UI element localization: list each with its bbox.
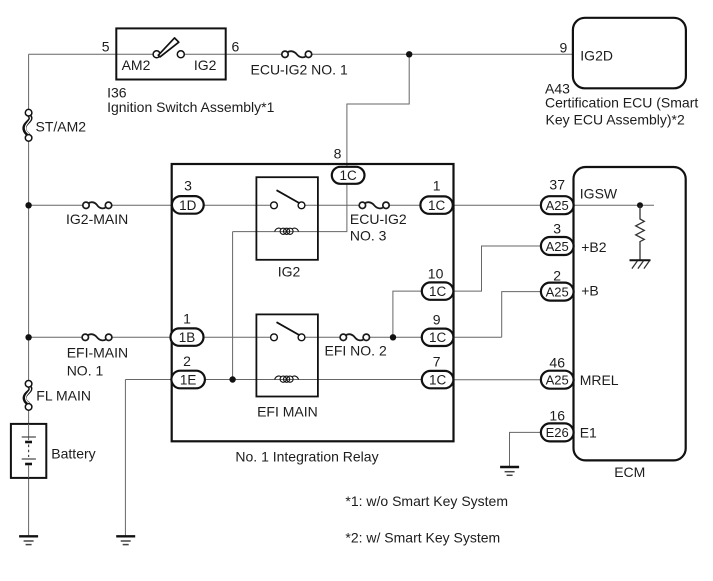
svg-text:Battery: Battery xyxy=(51,446,95,462)
svg-text:8: 8 xyxy=(334,146,342,162)
ignition switch blade xyxy=(158,38,179,57)
svg-text:E1: E1 xyxy=(580,425,597,441)
svg-text:EFI-MAIN: EFI-MAIN xyxy=(67,345,128,361)
svg-text:1C: 1C xyxy=(429,330,447,345)
ground from E1 xyxy=(500,467,519,475)
pin oval 1C pin 1 xyxy=(420,196,452,213)
fuse EFI-MAIN NO. 1 xyxy=(82,334,112,340)
node junction left rail EFI-MAIN xyxy=(25,334,31,340)
wire E1 to ground xyxy=(510,432,541,466)
svg-text:No. 1 Integration Relay: No. 1 Integration Relay xyxy=(235,449,378,465)
pin oval A25 +B2 xyxy=(541,237,574,255)
svg-text:1D: 1D xyxy=(179,198,197,213)
svg-text:Key ECU Assembly)*2: Key ECU Assembly)*2 xyxy=(546,112,685,128)
relay outer box No.1 Integration Relay xyxy=(172,164,454,441)
ECM box xyxy=(574,167,686,460)
fuse EFI NO. 2 xyxy=(340,334,369,340)
svg-text:NO. 3: NO. 3 xyxy=(350,227,387,243)
svg-text:1C: 1C xyxy=(339,168,357,183)
ignition switch contact AM2 xyxy=(153,51,160,58)
svg-text:+B: +B xyxy=(581,282,599,298)
wire junction drop from top row xyxy=(347,54,409,167)
A43 certification ECU box xyxy=(573,18,686,89)
svg-text:37: 37 xyxy=(549,177,565,193)
svg-text:*2: w/ Smart Key System: *2: w/ Smart Key System xyxy=(345,529,500,545)
wire IG2 coil down to 1E row xyxy=(232,232,234,380)
ground below battery xyxy=(19,536,38,544)
svg-text:AM2: AM2 xyxy=(122,57,151,73)
svg-text:*1: w/o Smart Key System: *1: w/o Smart Key System xyxy=(345,493,508,509)
svg-text:A25: A25 xyxy=(546,284,569,299)
svg-text:IG2-MAIN: IG2-MAIN xyxy=(66,211,128,227)
pin oval A25 MREL xyxy=(541,371,574,389)
relay IG2 contacts xyxy=(271,202,278,209)
svg-text:E26: E26 xyxy=(546,425,569,440)
ignition switch contact IG2 xyxy=(177,51,184,58)
svg-text:1C: 1C xyxy=(429,372,447,387)
svg-text:IG2: IG2 xyxy=(194,57,217,73)
svg-text:1C: 1C xyxy=(428,198,446,213)
svg-text:A25: A25 xyxy=(546,239,569,254)
svg-text:IG2: IG2 xyxy=(278,264,301,280)
svg-text:2: 2 xyxy=(553,267,561,283)
pin oval A25 +B xyxy=(541,283,574,301)
svg-text:16: 16 xyxy=(549,408,565,424)
svg-text:3: 3 xyxy=(184,178,192,194)
svg-text:2: 2 xyxy=(183,353,191,369)
svg-text:Certification ECU (Smart: Certification ECU (Smart xyxy=(545,95,698,111)
fuse ECU-IG2 NO. 3 xyxy=(359,202,389,208)
wire IG2-MAIN row xyxy=(29,204,654,206)
relay IG2 blade xyxy=(277,190,300,203)
fusible link FL MAIN xyxy=(25,381,32,411)
pin oval 1C pin 7 xyxy=(422,371,454,388)
chassis ground inside ECM xyxy=(630,260,651,268)
pin oval 1B xyxy=(171,328,204,345)
svg-text:MREL: MREL xyxy=(580,372,619,388)
pin oval 1D xyxy=(172,196,204,214)
svg-text:ST/AM2: ST/AM2 xyxy=(36,118,87,134)
svg-text:A25: A25 xyxy=(546,198,569,213)
node junction EFI NO.2 row xyxy=(390,334,396,340)
svg-text:46: 46 xyxy=(549,355,565,371)
relay EFI contacts xyxy=(271,334,278,341)
svg-text:IGSW: IGSW xyxy=(580,185,618,201)
svg-text:5: 5 xyxy=(102,39,110,55)
wire pin8 to IG2 coil xyxy=(233,184,347,232)
wire fuse to A43 pin 9 xyxy=(312,53,573,55)
pin oval 1E xyxy=(171,371,205,389)
relay IG2 coil xyxy=(275,228,299,234)
wire pin10 to +B2 xyxy=(453,246,541,291)
fusible link ST/AM2 xyxy=(24,109,32,141)
wire pin10 to EFI junction xyxy=(393,291,422,337)
svg-text:10: 10 xyxy=(428,266,444,282)
svg-text:1: 1 xyxy=(183,311,191,327)
relay EFI blade xyxy=(277,322,300,335)
svg-text:ECM: ECM xyxy=(614,464,645,480)
wire top row from left rail to ignition switch xyxy=(29,53,154,55)
wire 1E to ground xyxy=(124,380,126,537)
battery cells xyxy=(22,424,36,478)
pin oval 1C pin 9 xyxy=(422,329,454,346)
fuse IG2-MAIN xyxy=(83,202,112,208)
pin oval E26 E1 xyxy=(541,423,574,441)
svg-text:9: 9 xyxy=(433,312,441,328)
node junction left rail IG2-MAIN xyxy=(25,202,31,208)
node junction coil 1E row xyxy=(229,376,235,382)
svg-text:1: 1 xyxy=(433,178,441,194)
pin oval 1C pin 8 xyxy=(332,167,365,184)
wire ignition switch to fuse xyxy=(184,53,281,55)
svg-text:1C: 1C xyxy=(429,284,447,299)
svg-text:9: 9 xyxy=(560,40,568,56)
wire left rail vertical xyxy=(28,54,30,536)
svg-text:+B2: +B2 xyxy=(581,239,607,255)
svg-text:1E: 1E xyxy=(180,372,197,387)
node junction IGSW internal xyxy=(637,202,643,208)
relay EFI MAIN sub-box xyxy=(256,314,318,396)
wire +B to pin9 xyxy=(502,292,541,338)
pin oval A25 IGSW xyxy=(541,196,574,214)
wire 1E / MREL row xyxy=(125,379,541,381)
svg-text:3: 3 xyxy=(553,221,561,237)
relay IG2 sub-box xyxy=(256,177,318,260)
svg-text:NO. 1: NO. 1 xyxy=(67,363,104,379)
ignition switch box I36 xyxy=(116,28,225,79)
svg-text:EFI MAIN: EFI MAIN xyxy=(257,404,318,420)
ground from 1E xyxy=(116,536,135,544)
svg-text:7: 7 xyxy=(433,354,441,370)
node junction top row xyxy=(406,51,412,57)
wire EFI-MAIN row xyxy=(29,336,502,338)
fuse ECU-IG2 NO. 1 xyxy=(282,51,312,57)
relay EFI coil xyxy=(275,376,299,382)
svg-text:ECU-IG2: ECU-IG2 xyxy=(350,211,407,227)
svg-text:IG2D: IG2D xyxy=(580,48,613,64)
svg-text:1B: 1B xyxy=(179,330,196,345)
svg-text:6: 6 xyxy=(232,39,240,55)
svg-text:ECU-IG2 NO. 1: ECU-IG2 NO. 1 xyxy=(251,62,348,78)
svg-text:EFI NO. 2: EFI NO. 2 xyxy=(325,342,387,358)
svg-text:A25: A25 xyxy=(546,373,569,388)
pin oval 1C pin 10 xyxy=(422,282,454,299)
battery box xyxy=(11,424,46,478)
resistor inside ECM xyxy=(636,205,645,259)
svg-text:Ignition Switch Assembly*1: Ignition Switch Assembly*1 xyxy=(107,99,275,115)
svg-text:FL MAIN: FL MAIN xyxy=(36,388,91,404)
